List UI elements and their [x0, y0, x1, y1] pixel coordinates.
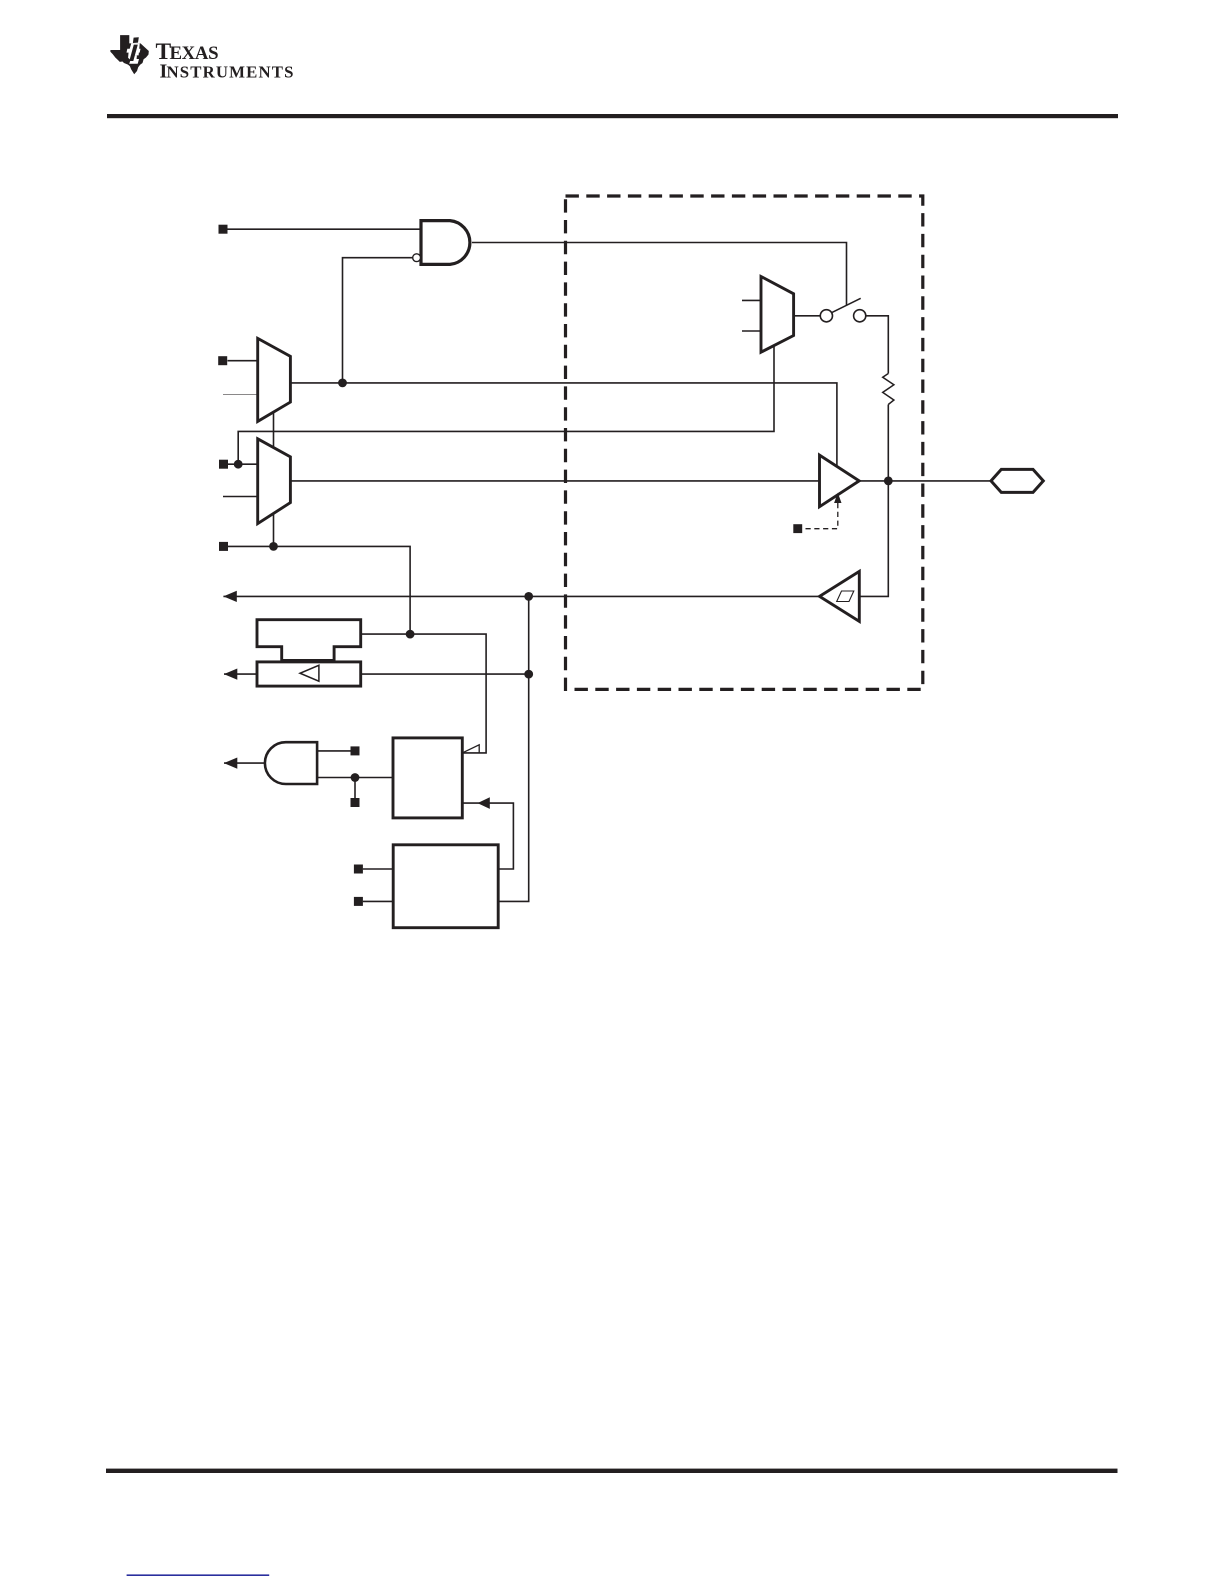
- wire: mux U2 second input (grey): [223, 394, 258, 396]
- wire: input C to mux U3: [228, 463, 259, 465]
- input square E (G2 input 1): [351, 746, 360, 755]
- wire: input A to NAND top input: [228, 228, 422, 230]
- svg-text:EXAS: EXAS: [170, 43, 219, 64]
- junction dot: G2 input 2 node: [351, 773, 360, 782]
- wire: mux U3 output to output buffer input: [290, 480, 820, 482]
- driver block B2 with left-pointing buffer symbol: [257, 662, 361, 686]
- wire: one-shot block output to flip-flop clock: [361, 634, 486, 753]
- junction dot: receive net node: [524, 592, 533, 601]
- TI logo wordmark TEXAS INSTRUMENTS: [156, 39, 295, 83]
- hysteresis glyph inside U6: [837, 591, 854, 602]
- svg-text:NSTRUMENTS: NSTRUMENTS: [167, 63, 295, 82]
- arrowhead: driver block output: [224, 669, 237, 680]
- wire: mux U4 output to switch: [794, 315, 821, 317]
- wire: AND gate G2 input 2 to flip-flop: [317, 777, 393, 779]
- wire: driver block right side to vertical net: [361, 673, 529, 675]
- input square F (G2 input 2 branch): [351, 798, 360, 807]
- mux U4 (inside I/O cell): [761, 277, 794, 353]
- NAND-style gate G1 with inverted lower input: [421, 221, 470, 265]
- junction dot: input C node: [234, 460, 243, 469]
- buffer triangle inside B2: [300, 665, 319, 681]
- footer rule: [106, 1469, 1118, 1473]
- schmitt trigger U6 (left pointing): [820, 571, 860, 621]
- wire: mux U4 input stub 1: [742, 299, 761, 301]
- arrowhead: G2 output: [224, 758, 237, 769]
- dashed I/O cell boundary box: [566, 196, 923, 689]
- enable arrow inside U5: [834, 493, 841, 503]
- wire: bottom block input 2: [363, 900, 393, 902]
- wire: output node down to schmitt trigger input: [859, 481, 888, 597]
- clock edge triangle on B3: [462, 745, 479, 753]
- header rule: [107, 114, 1118, 118]
- arrowhead: receive line: [223, 591, 236, 602]
- dashed enable wire to square G: [802, 503, 838, 529]
- junction dot: pad output node: [884, 477, 893, 486]
- wire: long vertical net to bottom block: [498, 596, 529, 901]
- input square C: [219, 460, 228, 469]
- control logic block B4: [393, 845, 498, 928]
- wire: mux U4 input stub 2: [742, 330, 761, 332]
- TI logo Texas-map glyph: [110, 35, 148, 74]
- wire: switch to pullup resistor: [866, 316, 889, 374]
- wire: mux U3 second input: [223, 496, 258, 498]
- one-shot block B1 (tabbed rectangle): [257, 620, 361, 661]
- wire: G2 input 2 branch to input square: [354, 778, 356, 799]
- input square H (bottom block input 1): [354, 865, 363, 874]
- analog switch contact circle 2: [854, 310, 866, 322]
- input square G (dashed enable source): [793, 524, 802, 533]
- wire: resistor bottom to output node: [887, 405, 889, 481]
- mux U3 (lower left): [258, 439, 291, 524]
- footer hyperlink underline: [127, 1574, 270, 1576]
- pullup resistor R1: [883, 374, 894, 405]
- AND gate G2 (left pointing): [265, 742, 317, 784]
- output buffer U5: [820, 455, 860, 507]
- wire: NAND output to analog switch control: [472, 243, 847, 306]
- junction dot: one-shot output node: [406, 630, 415, 639]
- analog switch contact circle 1: [820, 310, 832, 322]
- I/O pad hexagon: [991, 469, 1043, 492]
- wire: bottom block output 1 to flip-flop right input: [462, 803, 513, 869]
- junction dot: mux U2 output node: [338, 379, 347, 388]
- wire: mux U2 output to output-buffer enable: [290, 383, 837, 467]
- wire: input C branch up to mux U4 select: [238, 345, 774, 464]
- wire: receive line from schmitt trigger to arrow: [223, 595, 819, 597]
- wire: input D to one-shot select net: [228, 546, 411, 634]
- wire: mux U2/U3 select line: [273, 410, 275, 546]
- wire: driver block output to left arrow: [224, 673, 257, 675]
- junction dot: driver net node: [524, 670, 533, 679]
- analog switch lever: [832, 298, 861, 312]
- mux U2 (upper left): [258, 338, 291, 421]
- wire: NAND lower (bubbled) input from mux U2 output node: [343, 258, 413, 383]
- wire: AND gate G2 input 1: [317, 750, 351, 752]
- input square B: [218, 356, 227, 365]
- wire: bottom block input 1: [363, 868, 393, 870]
- input square A: [219, 225, 228, 234]
- input square D: [219, 542, 228, 551]
- flip-flop block B3: [393, 738, 462, 818]
- wire: output buffer to pad: [859, 480, 991, 482]
- junction dot: select net node: [269, 542, 278, 551]
- input square I (bottom block input 2): [354, 897, 363, 906]
- wire: AND gate G2 output to left arrow: [224, 762, 265, 764]
- arrowhead: flip-flop right input: [478, 797, 490, 809]
- wire: input B to mux U2: [228, 360, 259, 362]
- inversion bubble on G1 lower input: [413, 254, 421, 262]
